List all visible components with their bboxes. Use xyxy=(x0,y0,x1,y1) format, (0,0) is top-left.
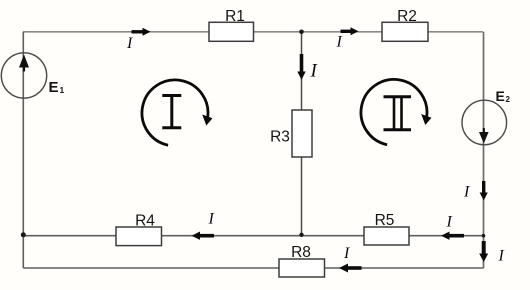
svg-text:E: E xyxy=(496,88,505,104)
current arrow I on middle wire right of R5 xyxy=(441,213,464,240)
junction node R3 bottom xyxy=(299,233,303,237)
svg-text:R5: R5 xyxy=(375,212,395,229)
svg-text:R1: R1 xyxy=(225,8,245,25)
svg-text:I: I xyxy=(446,213,453,230)
mesh loop arrow I (left) xyxy=(142,80,213,145)
current arrow I on top wire before R2 xyxy=(336,27,359,50)
wire bottom horizontal xyxy=(23,267,483,269)
voltage source E1 xyxy=(1,53,46,98)
mesh loop arrow II (right) xyxy=(361,79,432,144)
svg-text:I: I xyxy=(126,35,133,52)
svg-text:1: 1 xyxy=(60,85,65,95)
current arrow I on R3 branch xyxy=(297,54,318,82)
junction node top of R3 branch xyxy=(299,30,304,35)
resistor R2 xyxy=(382,8,428,42)
current arrow I on right wire below E2 xyxy=(463,181,488,201)
svg-text:R2: R2 xyxy=(397,8,417,25)
svg-text:R8: R8 xyxy=(291,244,311,261)
current arrow I on top wire before R1 xyxy=(126,28,151,52)
junction node left middle xyxy=(21,232,26,237)
svg-text:2: 2 xyxy=(506,95,511,104)
svg-text:I: I xyxy=(310,61,319,82)
current arrow I on middle wire left of R4 tail xyxy=(192,210,215,240)
voltage source E2 xyxy=(462,100,507,145)
resistor R4 xyxy=(116,213,162,246)
svg-text:I: I xyxy=(336,33,343,50)
resistor R3 xyxy=(270,110,312,157)
resistor R1 xyxy=(209,8,254,42)
label E1 xyxy=(49,79,65,96)
svg-text:R3: R3 xyxy=(270,129,290,146)
svg-text:I: I xyxy=(208,210,215,227)
resistor R8 xyxy=(279,244,325,277)
current arrow I on right wire above bottom corner xyxy=(479,241,504,264)
svg-text:I: I xyxy=(498,247,505,264)
wire middle horizontal xyxy=(23,235,484,237)
wire top horizontal xyxy=(23,31,483,33)
junction node right middle xyxy=(482,234,486,238)
wire R3 branch vertical xyxy=(301,32,303,236)
svg-text:E: E xyxy=(49,79,59,96)
wire right vertical xyxy=(483,32,485,268)
svg-text:I: I xyxy=(463,184,470,201)
svg-text:I: I xyxy=(343,245,350,262)
current arrow I on bottom wire right of R8 xyxy=(339,245,362,273)
svg-text:R4: R4 xyxy=(135,213,155,230)
wire left vertical xyxy=(22,32,24,268)
label E2 xyxy=(496,88,511,104)
resistor R5 xyxy=(364,212,409,245)
